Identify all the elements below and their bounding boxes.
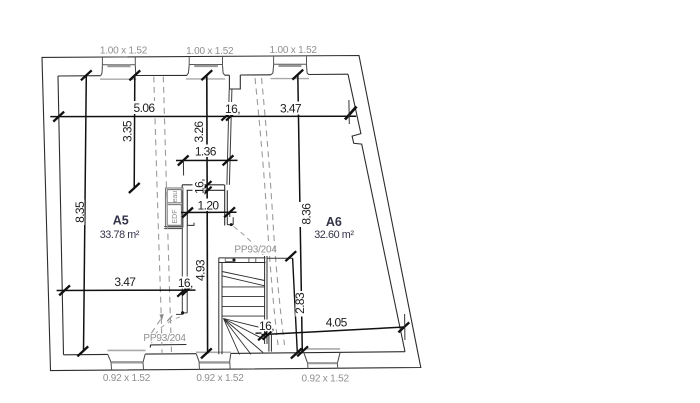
dimension vertical 8.35 — [84, 75, 87, 351]
svg-text:3.35: 3.35 — [121, 120, 135, 142]
svg-text:16,: 16, — [193, 179, 207, 194]
svg-text:1.00 x 1.52: 1.00 x 1.52 — [186, 46, 234, 57]
inner wall right line with pilaster — [348, 74, 405, 352]
svg-text:A6: A6 — [326, 215, 342, 229]
window B2 (0.92x1.52) — [196, 352, 231, 369]
inner wall top line — [58, 74, 348, 76]
dimension vertical 8.36/2.83 — [298, 75, 303, 353]
dimension vertical 3.35 — [133, 75, 136, 189]
svg-text:2.83: 2.83 — [293, 292, 307, 314]
dimension line main horizontal 5.06/16/3.47 — [50, 115, 356, 117]
svg-text:4.05: 4.05 — [326, 316, 348, 330]
stairs: straight treads — [222, 287, 265, 316]
svg-text:A5: A5 — [113, 214, 129, 228]
extension line right end — [348, 100, 350, 124]
svg-text:8.36: 8.36 — [300, 203, 314, 225]
inner wall bottom line segments — [64, 352, 406, 355]
svg-text:1.20: 1.20 — [198, 199, 220, 213]
door D1 frame at shaft (stair door) — [227, 213, 233, 225]
dashed guide line right pair — [255, 78, 285, 345]
shaft left wall upper — [186, 190, 188, 225]
svg-text:1.36: 1.36 — [195, 145, 217, 159]
stairs: left stringer — [219, 258, 222, 354]
svg-text:3.26: 3.26 — [192, 121, 206, 143]
svg-text:3.47: 3.47 — [114, 275, 136, 289]
svg-text:eau: eau — [172, 191, 179, 203]
dashed guide line left pair — [151, 77, 172, 353]
dimension horizontal 1.36 — [176, 159, 238, 161]
stairs: right edge — [265, 256, 267, 344]
door D1 swing arc (dashed) — [234, 227, 264, 256]
svg-text:0.92 x 1.52: 0.92 x 1.52 — [103, 373, 151, 384]
inner wall left line — [58, 76, 64, 355]
svg-text:1.00 x 1.52: 1.00 x 1.52 — [100, 46, 148, 57]
outer wall outline — [42, 56, 421, 371]
stairs: upper diagonal treads — [222, 272, 265, 286]
stairs: winder treads fan — [224, 319, 265, 355]
window T1 (1.00x1.52) — [100, 57, 136, 79]
svg-text:PP93/204: PP93/204 — [234, 245, 277, 256]
dimension vertical 3.26/16/4.93 — [206, 75, 209, 354]
partition wall A5 side (double) — [182, 190, 187, 313]
svg-text:PP93/204: PP93/204 — [143, 333, 186, 344]
svg-text:5.06: 5.06 — [134, 101, 156, 115]
door D2 (A5 entry) leaf open — [150, 345, 186, 348]
window T2 (1.00x1.52) — [186, 57, 225, 79]
shaft top wall horizontal — [182, 185, 225, 191]
utility closet EDF/eau — [164, 188, 183, 229]
shaft right wall — [225, 185, 228, 226]
svg-text:16,: 16, — [178, 276, 193, 290]
svg-text:8.35: 8.35 — [73, 201, 87, 223]
walking line arrow — [159, 314, 163, 320]
svg-text:3.47: 3.47 — [280, 102, 302, 116]
door D2 hinge dot — [181, 311, 184, 314]
svg-text:0.92 x 1.52: 0.92 x 1.52 — [302, 374, 350, 385]
svg-text:32.60 m²: 32.60 m² — [314, 229, 354, 241]
svg-text:33.78 m²: 33.78 m² — [100, 229, 140, 241]
window T3 (1.00x1.52) — [271, 56, 310, 78]
door D2 swing arc (dashed) — [152, 316, 184, 344]
svg-text:4.93: 4.93 — [194, 259, 208, 281]
stairs: top band — [219, 258, 266, 263]
window B1 (0.92x1.52) — [108, 350, 146, 370]
flue wall below notch — [227, 90, 232, 185]
svg-text:1.00 x 1.52: 1.00 x 1.52 — [270, 45, 318, 56]
text masks — [73, 101, 350, 342]
dimension horizontal 3.47/16 bottom — [57, 289, 196, 291]
window B3 (0.92x1.52) — [304, 349, 340, 369]
wall flue notch top — [229, 75, 240, 89]
svg-text:16,: 16, — [259, 319, 274, 333]
svg-text:0.92 x 1.52: 0.92 x 1.52 — [196, 373, 244, 384]
dimension horizontal 1.20 — [181, 211, 237, 213]
svg-text:EDF: EDF — [172, 210, 179, 224]
shaft bottom-left return — [188, 223, 195, 226]
dimension horizontal 4.05/16 — [262, 327, 405, 335]
stairs: newel block + dot — [225, 258, 235, 261]
door D1 hinge dot — [230, 223, 233, 226]
svg-text:16,: 16, — [225, 102, 240, 116]
